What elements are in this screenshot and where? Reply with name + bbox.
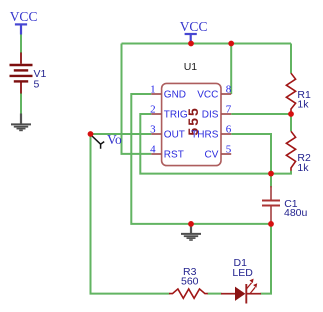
junction ground tap (188, 221, 194, 227)
svg-text:VCC: VCC (180, 19, 208, 34)
svg-text:5: 5 (226, 143, 232, 155)
svg-text:VCC: VCC (10, 9, 38, 24)
pin 3 OUT (150, 123, 185, 140)
junction R1/R2/DIS node (288, 111, 294, 117)
svg-text:U1: U1 (184, 61, 198, 73)
wire R1 top lead (290, 44, 292, 74)
junction TRIG/THRS/C1 node (268, 171, 274, 177)
wire pin8 VCC to rail (230, 44, 232, 95)
capacitor C1 (262, 186, 308, 222)
junction VCC tap (188, 41, 194, 47)
svg-text:3: 3 (150, 123, 156, 135)
wire Vo node down to bottom rail (91, 134, 170, 294)
wire TRIG pin2 to C1 top node (140, 114, 271, 174)
svg-text:TRIG: TRIG (164, 109, 188, 120)
svg-text:DIS: DIS (202, 109, 219, 120)
pin 5 CV (204, 143, 231, 160)
wire RST to VCC rail (122, 44, 152, 154)
junction Vo/OUT node (88, 131, 94, 137)
svg-text:480u: 480u (284, 207, 308, 219)
resistor R1 (286, 73, 311, 114)
wire OUT pin3 to Vo node (91, 133, 152, 135)
wire LED cathode up to ground node (261, 224, 272, 294)
svg-text:1: 1 (150, 83, 156, 95)
svg-text:VCC: VCC (197, 89, 218, 100)
pin 7 DIS (202, 103, 232, 120)
wire battery column green segments (20, 34, 22, 53)
wire C1 top lead green (270, 174, 272, 188)
pin 6 THRS (191, 123, 232, 140)
ground (below battery) (11, 114, 31, 131)
wire R2 top lead (290, 114, 292, 131)
wire GND pin1 to ground rail (131, 94, 271, 224)
svg-text:CV: CV (204, 149, 218, 160)
wire THRS pin6 down to node (231, 134, 271, 174)
svg-text:1k: 1k (297, 162, 309, 174)
power symbol VCC (top) (180, 19, 208, 43)
svg-text:1k: 1k (297, 99, 309, 111)
pin 8 VCC (197, 83, 232, 100)
power symbol VCC (left) (10, 9, 38, 34)
wire DIS pin7 to R1/R2 node (231, 113, 291, 115)
IC U1 555 timer body (162, 61, 221, 166)
svg-text:LED: LED (232, 267, 253, 279)
diode D1 LED (221, 257, 261, 304)
svg-text:560: 560 (181, 276, 199, 288)
pin 4 RST (150, 143, 184, 160)
svg-text:8: 8 (226, 83, 232, 95)
resistor R2 (286, 131, 311, 174)
ground (middle, below ground rail) (181, 225, 201, 240)
wire R2 bottom to node (271, 171, 291, 174)
svg-text:Vo: Vo (107, 132, 122, 147)
pin 1 GND (150, 83, 186, 100)
junction C1 bottom / LED return (268, 221, 274, 227)
svg-text:7: 7 (226, 103, 232, 115)
svg-text:6: 6 (226, 123, 232, 135)
wire top VCC rail (122, 43, 292, 45)
probe Vo (92, 132, 122, 149)
svg-text:RST: RST (164, 149, 184, 160)
wire R3 to LED (208, 293, 222, 295)
svg-text:5: 5 (34, 79, 40, 91)
resistor R3 (169, 266, 208, 298)
junction pin8 branch (228, 41, 234, 47)
svg-text:4: 4 (150, 143, 156, 155)
svg-text:THRS: THRS (191, 129, 219, 140)
svg-text:OUT: OUT (164, 129, 185, 140)
pin 2 TRIG (150, 103, 188, 120)
battery V1 (10, 53, 47, 94)
svg-text:2: 2 (150, 103, 156, 115)
svg-text:GND: GND (164, 89, 186, 100)
